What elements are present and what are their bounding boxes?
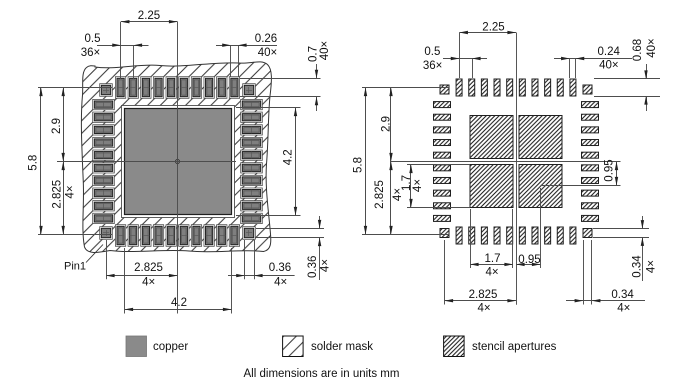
svg-text:40×: 40×: [646, 38, 658, 58]
svg-text:0.7: 0.7: [307, 46, 319, 62]
svg-text:2.25: 2.25: [482, 22, 504, 34]
svg-text:36×: 36×: [81, 47, 101, 59]
svg-text:4×: 4×: [319, 259, 331, 272]
dimension 0.95 (right, center to aperture center, rotated): [541, 159, 621, 185]
svg-text:2.9: 2.9: [381, 116, 393, 132]
svg-text:40×: 40×: [258, 47, 278, 59]
dimension 4.2 (right, thermal pad height, rotated): [236, 108, 301, 216]
svg-text:0.5: 0.5: [424, 46, 440, 58]
svg-text:5.8: 5.8: [353, 157, 365, 173]
legend solder mask swatch: [283, 336, 374, 357]
dimension 2.825 4x (left, center to corner pad): [52, 162, 77, 235]
dimension 2.9 (left, center to pad row): [51, 88, 65, 162]
svg-text:36×: 36×: [423, 60, 443, 72]
top stencil aperture row (10, 0.24 x 0.68): [456, 79, 576, 96]
horizontal centerline right figure: [391, 161, 621, 163]
bottom stencil aperture row (10): [456, 227, 576, 244]
legend copper swatch: [126, 336, 188, 357]
svg-text:2.9: 2.9: [51, 118, 63, 134]
svg-text:0.36: 0.36: [307, 256, 319, 278]
horizontal centerline left figure: [57, 161, 236, 163]
dimension 0.26 40x (pad width): [216, 33, 277, 77]
dimension 2.25 (top right figure): [459, 22, 516, 79]
vertical centerline right figure: [516, 33, 518, 305]
dimension 1.7 4x (bottom, thermal aperture width): [470, 209, 513, 279]
stencil aperture thermal bottom-left: [470, 165, 513, 208]
svg-text:5.8: 5.8: [28, 155, 40, 171]
Pin1 label and leader: [64, 245, 103, 273]
svg-text:Pin1: Pin1: [64, 261, 86, 273]
svg-text:stencil apertures: stencil apertures: [472, 341, 557, 353]
dimension 2.9 (right figure): [381, 88, 393, 162]
legend stencil apertures swatch: [444, 336, 557, 357]
left stencil aperture column (10): [434, 102, 451, 222]
dimension 0.68 40x (aperture length, rotated): [594, 38, 660, 111]
top copper pad row (10 pads, 0.26 x 0.7, pitch 0.5): [115, 77, 239, 99]
svg-text:2.825: 2.825: [52, 180, 64, 209]
dimension 5.8 (overall, left): [28, 88, 113, 235]
corner stencil aperture bottom-left: [440, 229, 449, 238]
dimension 0.34 4x (bottom right, corner aperture width): [566, 240, 645, 315]
left copper pad column (10 pads): [93, 99, 115, 223]
corner stencil aperture top-left (0.34): [440, 85, 449, 94]
svg-text:solder mask: solder mask: [311, 341, 373, 353]
svg-text:4.2: 4.2: [283, 149, 295, 165]
svg-text:0.68: 0.68: [632, 39, 644, 61]
svg-text:0.95: 0.95: [518, 254, 540, 266]
dimension 2.825 4x (bottom right figure): [445, 240, 517, 315]
svg-text:4×: 4×: [617, 303, 630, 315]
dimension 0.36 4x (bottom right, corner pad width): [228, 240, 295, 289]
dimension 2.825 4x (right figure left): [374, 162, 404, 235]
dimension 0.5 36x (right figure pitch): [423, 46, 487, 78]
central copper pad (thermal pad): [125, 109, 232, 215]
dimension 0.34 4x (right side, corner aperture height, rotated): [593, 216, 657, 281]
stencil aperture thermal top-right: [519, 116, 562, 159]
central solder mask opening: [122, 106, 235, 218]
dimension 5.8 (right figure overall): [353, 88, 449, 235]
corner stencil aperture top-right: [583, 85, 592, 94]
corner pad top-right: [243, 84, 256, 97]
bottom copper pad row (10 pads): [115, 225, 239, 247]
svg-text:4×: 4×: [485, 267, 498, 279]
svg-text:2.825: 2.825: [134, 262, 163, 274]
svg-text:4.2: 4.2: [171, 297, 187, 309]
dimension 2.25 (top, pad 1 center to centerline): [121, 10, 178, 79]
corner stencil aperture bottom-right: [583, 229, 592, 238]
stencil aperture thermal top-left (1.7 x 1.7): [470, 116, 513, 159]
svg-text:2.25: 2.25: [138, 10, 160, 22]
center mark of thermal pad: [173, 157, 182, 166]
right copper pad column (10 pads): [241, 99, 263, 223]
svg-text:4×: 4×: [477, 303, 490, 315]
svg-text:4×: 4×: [274, 277, 287, 289]
corner pad bottom-left (Pin1): [100, 227, 113, 240]
svg-text:0.26: 0.26: [255, 33, 277, 45]
svg-text:4×: 4×: [142, 277, 155, 289]
svg-text:0.5: 0.5: [85, 33, 101, 45]
svg-text:copper: copper: [153, 341, 188, 353]
dimension 0.5 36x (pad pitch): [81, 33, 149, 79]
svg-text:2.825: 2.825: [469, 289, 498, 301]
solder mask region (wavy outline, hatched): [81, 62, 271, 253]
dimension 0.24 40x (aperture width): [554, 46, 632, 78]
dimension 1.7 4x (left inner, thermal aperture height, rotated): [401, 165, 470, 208]
svg-text:1.7: 1.7: [485, 253, 501, 265]
svg-text:0.36: 0.36: [269, 262, 291, 274]
svg-text:2.825: 2.825: [374, 180, 386, 209]
right stencil aperture column (10): [582, 102, 599, 222]
svg-text:0.34: 0.34: [611, 289, 634, 301]
svg-text:40×: 40×: [319, 41, 331, 61]
svg-text:40×: 40×: [599, 60, 619, 72]
svg-text:0.95: 0.95: [604, 159, 616, 181]
corner pad top-left: [100, 84, 113, 97]
svg-text:4×: 4×: [64, 185, 76, 198]
svg-text:0.24: 0.24: [598, 46, 621, 58]
svg-text:0.34: 0.34: [632, 255, 644, 278]
dimension 2.825 4x (bottom, corner pad to centerline): [106, 240, 178, 289]
dimension 0.7 40x (pad length, right top, rotated): [240, 41, 331, 111]
vertical centerline left figure: [177, 22, 179, 314]
stencil aperture thermal bottom-right: [519, 165, 562, 208]
svg-text:All dimensions are in units mm: All dimensions are in units mm: [244, 368, 400, 380]
dimension 4.2 (bottom, thermal pad width): [125, 248, 232, 314]
corner pad bottom-right: [243, 227, 256, 240]
svg-text:4×: 4×: [645, 260, 657, 273]
svg-text:4×: 4×: [412, 179, 424, 192]
dimension 0.36 4x (right bottom, corner pad size, rotated): [256, 216, 331, 280]
dimension 0.95 (bottom, centerline to aperture center): [516, 188, 541, 268]
